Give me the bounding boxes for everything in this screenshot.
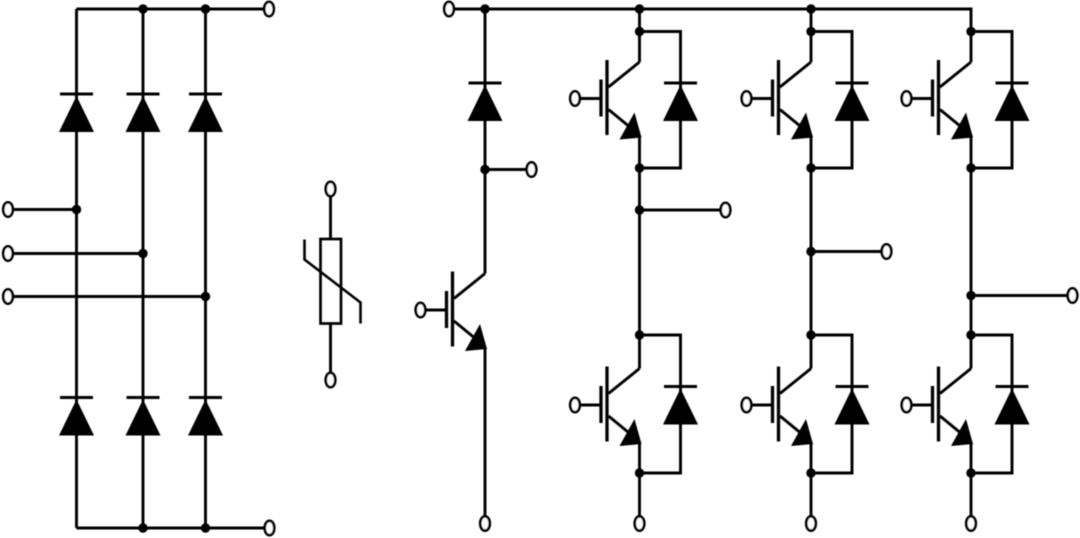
IGBT Q2 (lower U) [581, 367, 642, 447]
terminal: AC input L3 [3, 289, 13, 303]
wire: Q3 emitter [810, 135, 813, 168]
node: phase U upper collector node [635, 27, 644, 36]
terminal: phase U emitter / DC- [635, 516, 645, 530]
node: DC+ bus / phase V [806, 4, 815, 13]
wire: AC input L2 [13, 252, 143, 255]
node: phase V upper emitter node [806, 163, 815, 172]
IGBT Q4 (lower V) [753, 367, 814, 447]
terminal: phase U output [721, 203, 731, 217]
terminal: DC+ output of rectifier [264, 2, 274, 16]
node: L3 / leg 3 junction [201, 292, 210, 301]
node: phase V lower emitter node [806, 468, 815, 477]
wire: phase W midpoint [970, 168, 973, 296]
terminal: Q3 gate [742, 91, 752, 105]
wire: Q6 collector [970, 335, 973, 369]
wire: rectifier DC- bottom bus [77, 527, 266, 530]
diode D5 (rectifier bottom, leg 2) [126, 398, 161, 436]
wire: phase U midpoint [638, 168, 641, 210]
wire: rectifier phase leg 1 vertical [75, 9, 78, 528]
terminal: phase V emitter / DC- [806, 516, 816, 530]
terminal: Q2 gate [570, 398, 580, 412]
node: L2 / leg 2 junction [138, 249, 147, 258]
node: phase U lower collector node [635, 330, 644, 339]
wire: phase W bottom drop [970, 473, 973, 516]
wire: Q3 collector [810, 32, 813, 63]
node: DC+ bus / phase U [635, 4, 644, 13]
node: phase V lower collector node [806, 330, 815, 339]
wire: D13 branch [971, 335, 1012, 473]
terminal: DC- output of rectifier [265, 521, 275, 535]
wire: chopper diode branch [484, 9, 487, 170]
diode D4 (rectifier bottom, leg 1) [59, 398, 94, 436]
terminal: Q6 gate [902, 398, 912, 412]
IGBT Q7 (brake chopper) [427, 272, 488, 352]
wire: phase U bottom drop [638, 473, 641, 516]
diode D3 (rectifier top, leg 3) [188, 94, 223, 132]
node: DC+ bus / chopper [480, 4, 489, 13]
wire: Q4 collector [810, 335, 813, 369]
wire: phase V mid-to-lower [810, 252, 813, 336]
node: phase W lower collector node [966, 330, 975, 339]
node: phase W output node [966, 291, 975, 300]
node: phase W lower emitter node [966, 468, 975, 477]
wire: phase V midpoint [810, 168, 813, 252]
wire: D11 branch [811, 335, 852, 473]
terminal: Q7 gate [416, 303, 426, 317]
wire: thermistor top lead [329, 196, 332, 240]
node: DC+ bus / leg 2 [138, 4, 147, 13]
wire: Q2 emitter [638, 442, 641, 474]
diode D11 (antiparallel, lower V) [835, 387, 870, 425]
diode D13 (antiparallel, lower W) [995, 387, 1030, 425]
wire: Q4 emitter [810, 442, 813, 474]
node: DC- bus / leg 2 [138, 523, 147, 532]
terminal: thermistor top [326, 182, 336, 196]
wire: Q1 collector [638, 32, 641, 63]
diode D6 (rectifier bottom, leg 3) [188, 398, 223, 436]
wire: inverter DC+ bus [455, 9, 972, 32]
IGBT Q1 (upper U) [581, 60, 642, 140]
wire: Q5 collector [970, 32, 973, 63]
thermistor RT1 [305, 239, 361, 324]
terminal: AC input L2 [3, 246, 13, 260]
node: phase U output node [635, 205, 644, 214]
terminal: thermistor bottom [326, 373, 336, 387]
wire: phase U top drop [638, 9, 641, 32]
wire: phase U mid-to-lower [638, 210, 641, 335]
node: phase V output node [806, 247, 815, 256]
wire: phase U output stub [640, 209, 721, 212]
wire: Q2 collector [638, 335, 641, 369]
wire: Q5 emitter [970, 135, 973, 168]
wire: AC input L1 [13, 208, 77, 211]
node: phase W upper collector node [966, 27, 975, 36]
wire: chopper IGBT collector [484, 170, 487, 274]
diode D10 (antiparallel, upper V) [835, 83, 870, 121]
wire: D9 branch [640, 335, 681, 473]
IGBT Q3 (upper V) [753, 60, 814, 140]
wire: D10 branch [811, 32, 852, 169]
wire: phase V top drop [810, 9, 813, 32]
terminal: AC input L1 [3, 202, 13, 216]
wire: thermistor bottom lead [329, 324, 332, 374]
diode D12 (antiparallel, upper W) [995, 83, 1030, 121]
terminal: brake resistor R+ [527, 162, 537, 176]
wire: phase W mid-to-lower [970, 296, 973, 336]
wire: phase V bottom drop [810, 473, 813, 516]
wire: D8 branch [640, 32, 681, 169]
diode D8 (antiparallel, upper U) [663, 83, 698, 121]
wire: rectifier phase leg 3 vertical [204, 9, 207, 528]
diode D9 (antiparallel, lower U) [663, 387, 698, 425]
terminal: Q5 gate [902, 91, 912, 105]
terminal: inverter DC+ [444, 2, 454, 16]
terminal: Q4 gate [742, 398, 752, 412]
terminal: phase V output [882, 244, 892, 258]
wire: rectifier DC+ top bus [77, 8, 265, 11]
terminal: phase W emitter / DC- [966, 516, 976, 530]
terminal: chopper emitter / DC- [480, 516, 490, 530]
node: L1 / leg 1 junction [72, 205, 81, 214]
wire: Q1 emitter [638, 135, 641, 168]
diode D1 (rectifier top, leg 1) [59, 94, 94, 132]
node: phase U lower emitter node [635, 468, 644, 477]
node: phase U upper emitter node [635, 163, 644, 172]
diode D7 (chopper) [468, 83, 503, 121]
diode D2 (rectifier top, leg 2) [126, 94, 161, 132]
node: phase W upper emitter node [966, 163, 975, 172]
node: DC+ bus / leg 3 [201, 4, 210, 13]
wire: Q6 emitter [970, 442, 973, 474]
terminal: Q1 gate [570, 91, 580, 105]
wire: rectifier phase leg 2 vertical [142, 9, 145, 528]
IGBT Q6 (lower W) [913, 367, 974, 447]
node: phase V upper collector node [806, 27, 815, 36]
wire: D12 branch [971, 32, 1012, 169]
wire: chopper IGBT emitter [484, 347, 487, 517]
node: DC- bus / leg 3 [201, 523, 210, 532]
terminal: phase W output [1068, 288, 1078, 302]
wire: brake resistor stub [485, 168, 527, 171]
wire: AC input L3 [13, 295, 206, 298]
wire: phase W output stub [971, 294, 1068, 297]
IGBT Q5 (upper W) [913, 60, 974, 140]
wire: phase V output stub [811, 250, 882, 253]
node: chopper midpoint [480, 165, 489, 174]
